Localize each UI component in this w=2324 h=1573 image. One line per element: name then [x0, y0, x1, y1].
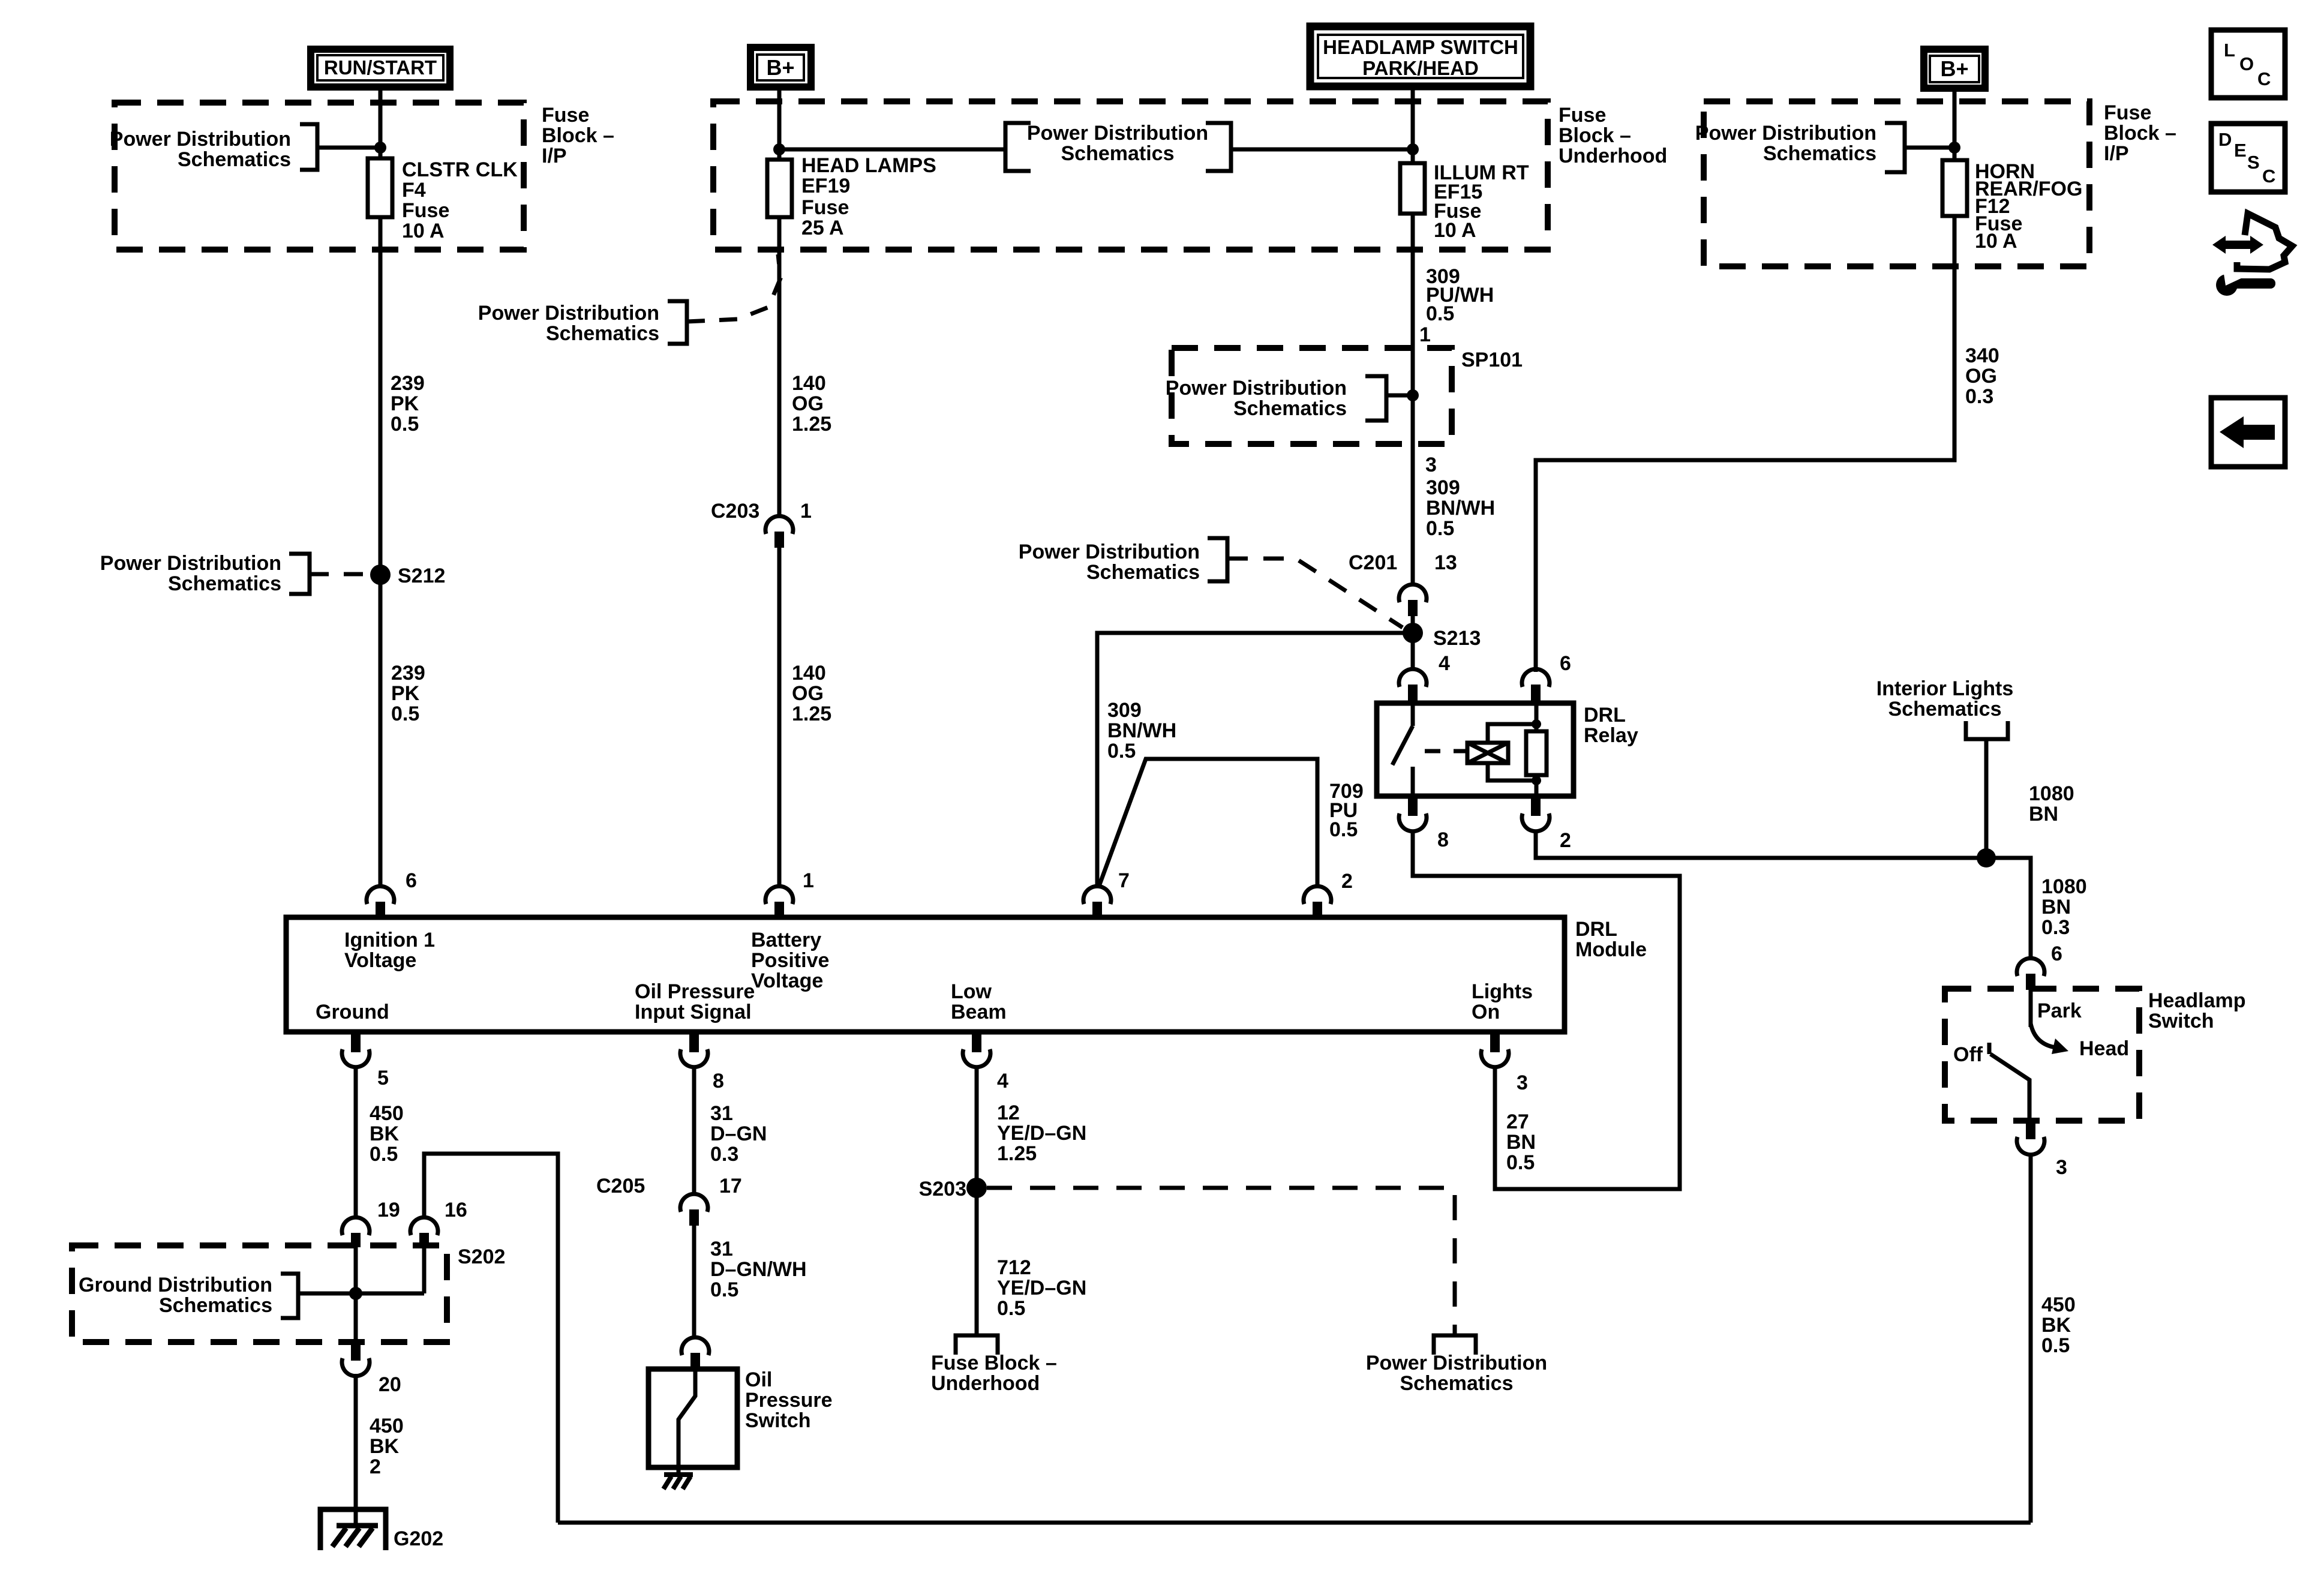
connector module pin 5 [342, 1032, 370, 1067]
reference Power Distribution Schematics to S212 with bracket [100, 552, 367, 595]
connector relay pin 2 [1522, 796, 1550, 831]
wire module pin 5 to S202 pin 19 [354, 1067, 358, 1219]
svg-text:19: 19 [377, 1199, 400, 1221]
label Battery Positive Voltage [751, 929, 829, 992]
svg-text:Schematics: Schematics [159, 1294, 272, 1317]
svg-text:OG: OG [792, 392, 824, 415]
svg-text:PARK/HEAD: PARK/HEAD [1362, 57, 1479, 79]
svg-text:S213: S213 [1433, 627, 1481, 650]
label wire 27 BN 0.5 [1506, 1110, 1536, 1174]
svg-text:B+: B+ [766, 55, 794, 80]
wire S202 pin 20 to G202 [354, 1374, 358, 1525]
headlamp switch rotate arc to Head [2031, 1023, 2055, 1047]
svg-text:0.3: 0.3 [1965, 385, 1993, 408]
svg-text:25 A: 25 A [801, 217, 844, 239]
svg-text:S: S [2247, 152, 2260, 173]
svg-text:Park: Park [2037, 999, 2082, 1022]
svg-text:Switch: Switch [745, 1409, 811, 1432]
label Fuse Block I/P right [2104, 101, 2176, 165]
svg-text:Schematics: Schematics [1400, 1372, 1514, 1395]
svg-text:10 A: 10 A [402, 220, 445, 242]
label wire 239 PK 0.5 lower [391, 662, 425, 725]
connector S202 pin 19 [342, 1217, 370, 1247]
svg-text:B+: B+ [1940, 56, 1968, 81]
svg-text:Switch: Switch [2148, 1010, 2214, 1032]
dashed box Fuse Block Underhood top [713, 101, 1548, 250]
svg-text:6: 6 [2051, 942, 2062, 965]
label C201 13 [1349, 551, 1457, 574]
ground below oil pressure switch [663, 1467, 693, 1489]
svg-text:13: 13 [1434, 551, 1457, 574]
fuse EF15 [1400, 163, 1425, 214]
svg-text:140: 140 [792, 662, 826, 685]
relay internal wire pin6 to pin2 [1535, 703, 1539, 796]
svg-text:27: 27 [1506, 1110, 1529, 1133]
wire headlamp switch pin 3 down to bottom rail [2029, 1153, 2033, 1523]
relay coil connection loop [1488, 724, 1536, 781]
node junction at EF19 top [773, 143, 785, 155]
relay dashed actuator link [1425, 749, 1466, 754]
label DRL Relay [1584, 704, 1638, 747]
fuse F4 [368, 158, 392, 217]
oil pressure switch box [648, 1369, 737, 1467]
svg-text:RUN/START: RUN/START [324, 56, 437, 79]
reference Fuse Block Underhood bottom with bracket [931, 1335, 1057, 1395]
svg-text:Head: Head [2079, 1037, 2129, 1060]
svg-text:2: 2 [1341, 870, 1353, 893]
wire W2 fuse EF19 down to C203 [777, 217, 782, 517]
svg-text:BN/WH: BN/WH [1426, 497, 1495, 520]
svg-text:Schematics: Schematics [1763, 142, 1876, 165]
svg-text:D: D [2218, 129, 2232, 150]
svg-text:Lights: Lights [1472, 980, 1533, 1003]
label wire 340 OG 0.3 [1965, 344, 1999, 408]
wire relay pin 2 to headlamp switch pin 6 [1536, 831, 2031, 960]
wire W3 from HEADLAMP SWITCH to fuse EF15 [1411, 86, 1415, 163]
svg-text:PK: PK [391, 682, 420, 705]
svg-text:OG: OG [792, 682, 824, 705]
wire module pin 4 to Fuse Block Underhood reference [975, 1065, 979, 1335]
svg-text:Fuse: Fuse [402, 199, 449, 222]
wire W4 fuse F12 down then left to relay pin 6 [1536, 216, 1954, 672]
splice S212 [370, 565, 391, 585]
svg-text:Underhood: Underhood [931, 1372, 1040, 1395]
connector module pin 4 [963, 1032, 990, 1067]
headlamp switch arc arrowhead [2052, 1038, 2068, 1054]
wire from inline reference to W3 [1231, 148, 1413, 152]
svg-text:10 A: 10 A [1434, 219, 1476, 242]
power box HEADLAMP SWITCH PARK/HEAD [1310, 26, 1530, 86]
connector S202 pin 20 [342, 1342, 370, 1376]
label HEADLAMP SWITCH PARK/HEAD [1323, 36, 1518, 79]
node relay coil bottom [1532, 776, 1541, 785]
connector S202 pin 16 [410, 1217, 438, 1247]
svg-text:712: 712 [997, 1256, 1031, 1279]
svg-text:Power Distribution: Power Distribution [100, 552, 281, 575]
svg-text:3: 3 [1517, 1071, 1528, 1094]
reference Power Distribution Schematics to W2 dashed with bracket [478, 254, 780, 345]
svg-text:0.5: 0.5 [391, 413, 419, 436]
node splice dot SP101 [1407, 389, 1419, 401]
svg-text:Underhood: Underhood [1559, 145, 1667, 167]
svg-text:BN: BN [1506, 1131, 1536, 1154]
svg-text:340: 340 [1965, 344, 1999, 367]
svg-text:BN/WH: BN/WH [1107, 719, 1176, 742]
svg-text:I/P: I/P [542, 145, 567, 167]
svg-text:D–GN/WH: D–GN/WH [710, 1258, 807, 1281]
svg-text:0.5: 0.5 [1329, 818, 1358, 841]
ground G202 [320, 1509, 386, 1550]
svg-text:SP101: SP101 [1461, 349, 1523, 371]
headlamp switch park wire [2029, 989, 2033, 1027]
svg-text:7: 7 [1118, 869, 1130, 892]
connector relay pin 4 [1399, 669, 1427, 703]
svg-text:S203: S203 [919, 1178, 966, 1200]
svg-text:0.5: 0.5 [2041, 1334, 2070, 1357]
label Low Beam [951, 980, 1007, 1023]
node junction 1080 BN [1977, 848, 1996, 867]
svg-text:Power Distribution: Power Distribution [478, 302, 659, 325]
wire S202 internal horizontal [298, 1292, 424, 1296]
connector headlamp switch pin 6 [2017, 958, 2044, 990]
svg-text:20: 20 [379, 1373, 401, 1396]
svg-text:Schematics: Schematics [178, 148, 291, 171]
wire W3 fuse EF15 down through SP101 to C201 [1411, 214, 1415, 586]
svg-text:BK: BK [370, 1435, 400, 1458]
svg-text:E: E [2234, 140, 2247, 161]
svg-text:0.5: 0.5 [391, 703, 419, 725]
svg-text:309: 309 [1426, 476, 1460, 499]
svg-text:309: 309 [1107, 699, 1142, 722]
svg-text:12: 12 [997, 1101, 1020, 1124]
svg-text:6: 6 [1560, 652, 1571, 675]
svg-text:HEAD LAMPS: HEAD LAMPS [801, 154, 936, 177]
wire W3 from C201 to relay pin 4 [1411, 616, 1415, 671]
svg-text:YE/D–GN: YE/D–GN [997, 1122, 1086, 1145]
label wire 140 OG 1.25 upper [792, 372, 831, 436]
svg-text:0.5: 0.5 [370, 1143, 398, 1166]
label wire 712 YE/D-GN 0.5 [997, 1256, 1086, 1320]
svg-text:Fuse: Fuse [801, 196, 849, 219]
svg-text:1: 1 [800, 500, 812, 523]
svg-text:16: 16 [445, 1199, 467, 1221]
svg-text:Voltage: Voltage [751, 969, 823, 992]
label wire 450 BK 2 [370, 1415, 404, 1478]
relay DRL box [1377, 703, 1574, 796]
svg-text:Block –: Block – [542, 124, 614, 147]
svg-text:C203: C203 [711, 500, 759, 523]
svg-text:G202: G202 [394, 1527, 443, 1550]
connector module pin 1 [765, 886, 793, 917]
svg-text:Schematics: Schematics [1888, 698, 2002, 721]
connector module pin 2 [1304, 886, 1331, 917]
wire branch B+ to inline reference [779, 148, 1004, 152]
svg-text:Voltage: Voltage [344, 949, 416, 972]
dashed box headlamp switch [1945, 989, 2139, 1121]
svg-text:1080: 1080 [2029, 782, 2074, 805]
svg-text:Headlamp: Headlamp [2148, 989, 2246, 1012]
reference Power Distribution Schematics in SP101 with bracket [1166, 376, 1409, 421]
reference Power Distribution Schematics bottom with bracket [1366, 1335, 1547, 1395]
svg-text:DRL: DRL [1575, 918, 1617, 941]
wire W1 branch to bracket [317, 146, 380, 150]
label fuse F12 HORN REAR/FOG [1975, 160, 2082, 253]
svg-text:O: O [2239, 53, 2254, 74]
icon DESC box [2211, 124, 2285, 192]
label C205 17 [596, 1175, 742, 1197]
icon double arrow with wrench [2212, 214, 2292, 296]
wire W1 ignition from RUN/START to fuse F4 [379, 87, 383, 158]
svg-text:Power Distribution: Power Distribution [1019, 541, 1200, 563]
dashed box S202 [72, 1245, 447, 1342]
svg-text:140: 140 [792, 372, 826, 395]
svg-text:450: 450 [370, 1102, 404, 1125]
svg-text:Fuse: Fuse [542, 104, 589, 127]
connector module pin 3 [1481, 1032, 1509, 1067]
svg-text:S202: S202 [458, 1245, 505, 1268]
node S202 splice [349, 1287, 362, 1300]
svg-text:Power Distribution: Power Distribution [1027, 122, 1208, 145]
DRL module box [286, 917, 1565, 1032]
reference Ground Distribution Schematics with bracket [79, 1274, 298, 1318]
svg-text:Relay: Relay [1584, 724, 1638, 747]
svg-text:C: C [2262, 166, 2275, 187]
connector C203 [765, 516, 793, 548]
svg-text:Power Distribution: Power Distribution [110, 128, 291, 151]
svg-text:C205: C205 [596, 1175, 645, 1197]
svg-text:BK: BK [370, 1122, 400, 1145]
svg-text:Module: Module [1575, 938, 1647, 961]
connector module pin 6 [367, 886, 394, 917]
label wire 450 BK 0.5 right [2041, 1293, 2076, 1357]
svg-text:239: 239 [391, 372, 425, 395]
label Fuse Block I/P left [542, 104, 614, 167]
connector module pin 8 [680, 1032, 708, 1067]
svg-text:31: 31 [710, 1102, 733, 1125]
power box B+ left [750, 47, 811, 87]
wire S202 internal pin 16 down [422, 1247, 427, 1293]
label wire 12 YE/D-GN 1.25 [997, 1101, 1086, 1165]
label wire 239 PK 0.5 upper [391, 372, 425, 436]
svg-text:Schematics: Schematics [1061, 142, 1175, 165]
svg-text:Positive: Positive [751, 949, 829, 972]
svg-text:F4: F4 [402, 179, 426, 202]
label wire 450 BK 0.5 left [370, 1102, 404, 1166]
svg-text:3: 3 [2056, 1156, 2067, 1179]
label wire 31 D-GN/WH 0.5 [710, 1238, 807, 1301]
svg-text:1.25: 1.25 [997, 1142, 1037, 1165]
oil pressure switch blade [678, 1369, 695, 1467]
svg-text:Schematics: Schematics [1086, 561, 1200, 584]
svg-text:Off: Off [1953, 1043, 1983, 1066]
label Oil Pressure Input Signal [635, 980, 755, 1023]
svg-text:Fuse: Fuse [2104, 101, 2151, 124]
svg-text:Power Distribution: Power Distribution [1166, 377, 1347, 400]
svg-text:OG: OG [1965, 365, 1997, 388]
svg-text:2: 2 [370, 1455, 381, 1478]
svg-text:CLSTR CLK: CLSTR CLK [402, 158, 518, 181]
svg-text:1: 1 [1419, 323, 1431, 346]
svg-text:EF19: EF19 [801, 175, 850, 197]
node junction at EF15 top [1407, 143, 1419, 155]
reference Power Distribution Schematics to S213 dashed with bracket [1019, 538, 1403, 628]
svg-text:8: 8 [1437, 828, 1449, 851]
connector C201 [1399, 584, 1427, 616]
svg-text:Input Signal: Input Signal [635, 1001, 752, 1023]
svg-text:HEADLAMP SWITCH: HEADLAMP SWITCH [1323, 36, 1518, 58]
svg-text:DRL: DRL [1584, 704, 1626, 727]
svg-text:S212: S212 [398, 565, 445, 587]
label wire 1080 BN 0.3 [2041, 875, 2087, 939]
svg-text:17: 17 [719, 1175, 742, 1197]
label Headlamp Switch [2148, 989, 2246, 1032]
svg-text:4: 4 [997, 1070, 1008, 1092]
dashed box Fuse Block I/P left [115, 103, 524, 250]
wire module pin 8 to C205 [692, 1067, 696, 1195]
label Oil Pressure Switch [745, 1368, 833, 1432]
svg-text:PK: PK [391, 392, 419, 415]
label wire 309 PU/WH 0.5 [1426, 265, 1494, 325]
svg-text:Block –: Block – [2104, 122, 2176, 145]
svg-text:Ground: Ground [316, 1001, 389, 1023]
splice S213 [1403, 623, 1423, 643]
relay switch blade [1392, 703, 1413, 796]
label Lights On [1472, 980, 1533, 1023]
label Ignition 1 Voltage [344, 929, 435, 972]
svg-text:C: C [2257, 68, 2271, 89]
connector relay pin 6 [1522, 669, 1550, 703]
svg-text:Low: Low [951, 980, 992, 1003]
connector oil pressure switch [681, 1337, 709, 1370]
power box B+ right [1924, 49, 1985, 88]
label fuse F4 CLSTR CLK [402, 158, 518, 242]
svg-text:Oil Pressure: Oil Pressure [635, 980, 755, 1003]
svg-text:0.5: 0.5 [1426, 517, 1454, 540]
reference Power Distribution Schematics right with bracket [1695, 122, 1954, 172]
fuse F12 [1942, 160, 1967, 216]
reference Interior Lights Schematics with bracket [1876, 677, 2014, 858]
node junction at F12 top [1948, 142, 1960, 154]
power box RUN/START [311, 49, 450, 87]
label wire 309 BN/WH 0.5 upper [1426, 476, 1495, 540]
svg-text:Oil: Oil [745, 1368, 772, 1391]
connector relay pin 8 [1399, 796, 1427, 831]
wire W1 fuse F4 down to module pin 6 [379, 217, 383, 887]
svg-text:BN: BN [2041, 896, 2071, 918]
svg-text:0.3: 0.3 [710, 1143, 738, 1166]
svg-text:Power Distribution: Power Distribution [1366, 1352, 1547, 1374]
label C203 1 [711, 500, 812, 523]
relay resistor [1526, 731, 1547, 775]
svg-text:0.5: 0.5 [997, 1297, 1025, 1320]
svg-text:31: 31 [710, 1238, 733, 1260]
relay coil box with X [1467, 743, 1508, 763]
svg-text:239: 239 [391, 662, 425, 685]
svg-text:I/P: I/P [2104, 142, 2129, 165]
svg-text:Schematics: Schematics [546, 322, 659, 345]
svg-text:0.5: 0.5 [710, 1278, 738, 1301]
wire S203 dashed to Power Distribution reference [987, 1188, 1455, 1335]
label Fuse Block Underhood top [1559, 104, 1667, 167]
wire C205 to oil pressure switch [692, 1226, 696, 1338]
fuse EF19 [767, 160, 792, 217]
svg-text:D–GN: D–GN [710, 1122, 767, 1145]
svg-text:Ignition 1: Ignition 1 [344, 929, 435, 951]
wire bottom rail [558, 1521, 2031, 1525]
label fuse EF19 HEAD LAMPS [801, 154, 936, 239]
svg-text:Ground Distribution: Ground Distribution [79, 1274, 272, 1296]
svg-text:1080: 1080 [2041, 875, 2087, 898]
svg-text:5: 5 [377, 1067, 389, 1089]
headlamp switch off blade [1989, 1043, 2029, 1121]
dashed box SP101 splice [1172, 348, 1452, 444]
svg-text:1: 1 [803, 869, 814, 892]
svg-text:0.5: 0.5 [1426, 302, 1454, 325]
icon LOC box [2211, 30, 2285, 98]
wire relay pin 8 to module pin 3 [1413, 830, 1680, 1189]
svg-text:0.5: 0.5 [1107, 740, 1136, 763]
connector headlamp switch pin 3 [2017, 1121, 2044, 1155]
svg-text:0.3: 0.3 [2041, 916, 2070, 939]
svg-text:Block –: Block – [1559, 124, 1631, 147]
svg-text:1.25: 1.25 [792, 413, 831, 436]
wire S202 internal pin 19 to pin 20 [354, 1247, 358, 1342]
svg-text:3: 3 [1425, 454, 1437, 476]
wire W2 battery from B+ to fuse EF19 [777, 87, 782, 160]
svg-text:Schematics: Schematics [168, 572, 281, 595]
svg-text:450: 450 [2041, 1293, 2076, 1316]
svg-text:Interior Lights: Interior Lights [1876, 677, 2014, 700]
svg-text:Schematics: Schematics [1233, 397, 1347, 420]
svg-text:4: 4 [1439, 652, 1450, 675]
label wire 140 OG 1.25 lower [792, 662, 831, 725]
label wire 709 PU 0.5 [1329, 780, 1364, 841]
svg-text:Fuse Block –: Fuse Block – [931, 1352, 1057, 1374]
svg-text:L: L [2224, 40, 2235, 61]
label fuse EF15 ILLUM RT [1434, 161, 1529, 242]
wire from S213 left and down to module pin 7 [1097, 633, 1413, 887]
reference Power Distribution Schematics top-left with bracket [110, 124, 317, 171]
node junction at F4 top [374, 142, 386, 154]
svg-text:Pressure: Pressure [745, 1389, 833, 1412]
svg-text:450: 450 [370, 1415, 404, 1437]
svg-text:1.25: 1.25 [792, 703, 831, 725]
label wire 1080 BN [2029, 782, 2074, 825]
node relay coil top [1532, 719, 1541, 729]
svg-text:2: 2 [1560, 829, 1571, 852]
wire 709 PU from pin 7 diagonal to module pin 2 [1099, 759, 1317, 887]
svg-text:YE/D–GN: YE/D–GN [997, 1277, 1086, 1299]
dashed box Fuse Block I/P right [1704, 101, 2089, 266]
label wire 309 BN/WH 0.5 left [1107, 699, 1176, 763]
label DRL Module [1575, 918, 1647, 961]
svg-text:BK: BK [2041, 1314, 2071, 1337]
svg-text:C201: C201 [1349, 551, 1397, 574]
svg-text:On: On [1472, 1001, 1500, 1023]
svg-text:6: 6 [406, 869, 417, 892]
label wire 31 D-GN 0.3 [710, 1102, 767, 1166]
svg-text:8: 8 [713, 1070, 724, 1092]
svg-text:Fuse: Fuse [1559, 104, 1606, 127]
wire W2 from C203 to module pin 1 [777, 548, 782, 888]
icon left arrow box [2211, 398, 2285, 467]
connector C205 [680, 1194, 708, 1226]
svg-text:Beam: Beam [951, 1001, 1007, 1023]
splice S203 [966, 1178, 987, 1198]
svg-text:Battery: Battery [751, 929, 821, 951]
svg-text:0.5: 0.5 [1506, 1151, 1535, 1174]
wire W4 horn from B+ to fuse F12 [1953, 88, 1957, 160]
